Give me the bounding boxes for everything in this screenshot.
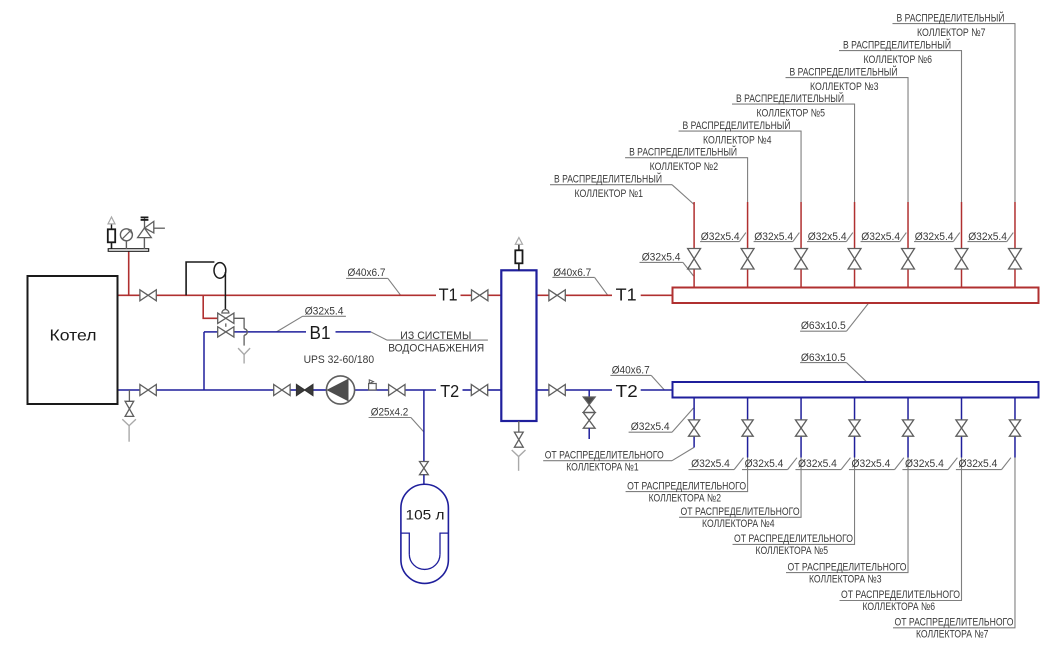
svg-text:Ø32x5.4: Ø32x5.4: [808, 231, 847, 243]
svg-text:КОЛЛЕКТОРА №7: КОЛЛЕКТОРА №7: [916, 629, 989, 641]
svg-text:Ø40x6.7: Ø40x6.7: [348, 267, 386, 279]
svg-text:В РАСПРЕДЕЛИТЕЛЬНЫЙ: В РАСПРЕДЕЛИТЕЛЬНЫЙ: [629, 146, 737, 159]
svg-text:Ø32x5.4: Ø32x5.4: [745, 458, 784, 470]
svg-text:ОТ РАСПРЕДЕЛИТЕЛЬНОГО: ОТ РАСПРЕДЕЛИТЕЛЬНОГО: [627, 480, 746, 492]
svg-text:105 л: 105 л: [406, 508, 445, 523]
svg-text:ОТ РАСПРЕДЕЛИТЕЛЬНОГО: ОТ РАСПРЕДЕЛИТЕЛЬНОГО: [894, 617, 1013, 629]
svg-text:Т2: Т2: [616, 381, 638, 401]
svg-text:КОЛЛЕКТОРА №3: КОЛЛЕКТОРА №3: [809, 573, 882, 585]
svg-text:Ø32x5.4: Ø32x5.4: [754, 231, 793, 243]
svg-text:Т1: Т1: [616, 284, 637, 304]
svg-text:Ø25x4.2: Ø25x4.2: [371, 407, 409, 419]
svg-text:КОЛЛЕКТОР №6: КОЛЛЕКТОР №6: [864, 54, 933, 66]
svg-text:Ø32x5.4: Ø32x5.4: [631, 421, 670, 433]
svg-text:Котел: Котел: [50, 328, 97, 345]
svg-text:В РАСПРЕДЕЛИТЕЛЬНЫЙ: В РАСПРЕДЕЛИТЕЛЬНЫЙ: [843, 38, 951, 51]
svg-text:ОТ РАСПРЕДЕЛИТЕЛЬНОГО: ОТ РАСПРЕДЕЛИТЕЛЬНОГО: [734, 533, 853, 545]
svg-text:UPS 32-60/180: UPS 32-60/180: [304, 354, 375, 366]
svg-text:В РАСПРЕДЕЛИТЕЛЬНЫЙ: В РАСПРЕДЕЛИТЕЛЬНЫЙ: [554, 173, 662, 186]
svg-text:Ø32x5.4: Ø32x5.4: [959, 458, 998, 470]
svg-text:Ø40x6.7: Ø40x6.7: [612, 365, 650, 377]
svg-text:Ø32x5.4: Ø32x5.4: [642, 252, 681, 264]
svg-text:КОЛЛЕКТОР №7: КОЛЛЕКТОР №7: [917, 27, 986, 39]
svg-text:КОЛЛЕКТОРА №2: КОЛЛЕКТОРА №2: [649, 492, 722, 504]
svg-text:В1: В1: [310, 323, 331, 343]
svg-text:В РАСПРЕДЕЛИТЕЛЬНЫЙ: В РАСПРЕДЕЛИТЕЛЬНЫЙ: [790, 65, 898, 78]
svg-text:Ø63x10.5: Ø63x10.5: [801, 320, 846, 332]
svg-text:Ø32x5.4: Ø32x5.4: [691, 458, 730, 470]
svg-text:КОЛЛЕКТОРА №4: КОЛЛЕКТОРА №4: [702, 518, 775, 530]
svg-text:КОЛЛЕКТОР №2: КОЛЛЕКТОР №2: [650, 161, 719, 173]
svg-text:В РАСПРЕДЕЛИТЕЛЬНЫЙ: В РАСПРЕДЕЛИТЕЛЬНЫЙ: [736, 92, 844, 105]
svg-text:Ø32x5.4: Ø32x5.4: [915, 231, 954, 243]
svg-text:Т1: Т1: [439, 284, 458, 304]
svg-text:Ø32x5.4: Ø32x5.4: [701, 231, 740, 243]
svg-text:ОТ РАСПРЕДЕЛИТЕЛЬНОГО: ОТ РАСПРЕДЕЛИТЕЛЬНОГО: [681, 506, 800, 518]
svg-text:ОТ РАСПРЕДЕЛИТЕЛЬНОГО: ОТ РАСПРЕДЕЛИТЕЛЬНОГО: [841, 589, 960, 601]
svg-text:КОЛЛЕКТОРА №5: КОЛЛЕКТОРА №5: [756, 545, 829, 557]
svg-text:КОЛЛЕКТОРА №6: КОЛЛЕКТОРА №6: [863, 601, 936, 613]
svg-text:В РАСПРЕДЕЛИТЕЛЬНЫЙ: В РАСПРЕДЕЛИТЕЛЬНЫЙ: [896, 11, 1004, 24]
svg-text:Ø32x5.4: Ø32x5.4: [905, 458, 944, 470]
svg-text:Ø32x5.4: Ø32x5.4: [968, 231, 1007, 243]
svg-text:КОЛЛЕКТОРА №1: КОЛЛЕКТОРА №1: [566, 461, 639, 473]
svg-text:КОЛЛЕКТОР №3: КОЛЛЕКТОР №3: [810, 81, 879, 93]
svg-text:Ø63x10.5: Ø63x10.5: [801, 352, 846, 364]
svg-text:КОЛЛЕКТОР №4: КОЛЛЕКТОР №4: [703, 134, 772, 146]
svg-text:Ø32x5.4: Ø32x5.4: [305, 306, 344, 318]
svg-text:Ø32x5.4: Ø32x5.4: [852, 458, 891, 470]
svg-text:Ø32x5.4: Ø32x5.4: [861, 231, 900, 243]
svg-text:В РАСПРЕДЕЛИТЕЛЬНЫЙ: В РАСПРЕДЕЛИТЕЛЬНЫЙ: [683, 119, 791, 132]
svg-text:Т2: Т2: [440, 381, 459, 401]
svg-text:ИЗ СИСТЕМЫ: ИЗ СИСТЕМЫ: [400, 330, 471, 342]
svg-text:ОТ РАСПРЕДЕЛИТЕЛЬНОГО: ОТ РАСПРЕДЕЛИТЕЛЬНОГО: [788, 561, 907, 573]
svg-text:КОЛЛЕКТОР №1: КОЛЛЕКТОР №1: [575, 188, 644, 200]
svg-text:Ø32x5.4: Ø32x5.4: [798, 458, 837, 470]
svg-text:ВОДОСНАБЖЕНИЯ: ВОДОСНАБЖЕНИЯ: [388, 343, 484, 355]
svg-text:Ø40x6.7: Ø40x6.7: [553, 267, 591, 279]
svg-text:ОТ РАСПРЕДЕЛИТЕЛЬНОГО: ОТ РАСПРЕДЕЛИТЕЛЬНОГО: [545, 449, 664, 461]
svg-text:КОЛЛЕКТОР №5: КОЛЛЕКТОР №5: [757, 107, 826, 119]
